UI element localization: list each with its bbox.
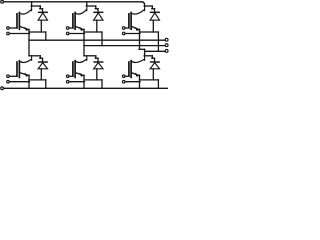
wire phase node 1 vertical — [28, 29, 30, 56]
wire bus drop column 3 (rounded corner) — [142, 2, 145, 6]
wire bottom emitter 3 to N bus — [139, 75, 141, 88]
wire collector B2 staircase — [84, 55, 96, 57]
node N (DC- terminal) — [1, 87, 4, 90]
diode D3 — [154, 9, 156, 14]
wire emitter B1 step down — [45, 80, 47, 88]
transistor T3 (IGBT) — [128, 14, 130, 28]
wire aux emitter E3b — [125, 81, 140, 83]
wire emitter T1 step down — [45, 32, 47, 40]
wire bus drop column 2 — [86, 2, 88, 6]
wire gate G2b — [69, 75, 73, 77]
wire emitter B2 to diode anode — [84, 79, 102, 81]
node phase terminal 2 — [165, 44, 168, 47]
wire emitter T1 to diode anode — [29, 31, 46, 33]
gate terminal G2b — [66, 75, 69, 78]
wire phase output 3 — [145, 50, 166, 52]
gate terminal G3b — [122, 75, 125, 78]
wire aux emitter E1 — [9, 33, 29, 35]
diode D2b — [97, 58, 99, 63]
wire collector B3 staircase — [144, 55, 152, 57]
wire gate G3 — [125, 27, 129, 29]
transistor T2 (IGBT) — [72, 14, 74, 28]
gate terminal G3 — [122, 27, 125, 30]
wire phase node 2 vertical — [83, 29, 85, 56]
wire gate G1b — [9, 75, 17, 77]
aux emitter terminal E1b — [7, 80, 10, 83]
wire emitter T3 to diode anode — [140, 31, 159, 33]
wire bottom emitter 2 to N bus — [83, 75, 85, 88]
wire top bus P — [3, 1, 141, 3]
wire phase output 2 — [84, 45, 165, 47]
gate terminal G1 — [7, 27, 10, 30]
aux emitter terminal E2b — [66, 80, 69, 83]
aux emitter terminal E2 — [66, 32, 69, 35]
gate terminal G1b — [7, 75, 10, 78]
wire collector T3 staircase — [144, 5, 152, 7]
node phase terminal 3 — [165, 49, 168, 52]
wire bottom emitter 1 to N bus — [28, 75, 30, 88]
aux emitter terminal E3b — [122, 80, 125, 83]
diode D1b — [42, 58, 44, 63]
aux emitter terminal E3 — [122, 32, 125, 35]
wire gate G2 — [69, 27, 73, 29]
wire gate G3b — [125, 75, 129, 77]
diode D2 — [97, 9, 99, 14]
wire emitter B1 to diode anode — [29, 79, 46, 81]
node P (DC+ terminal) — [1, 0, 4, 3]
wire gate G1 — [9, 27, 17, 29]
wire aux emitter E2 — [69, 33, 85, 35]
wire emitter B2 step down — [101, 80, 103, 88]
wire emitter T2 step down — [101, 32, 103, 46]
transistor B2 (IGBT) — [72, 62, 74, 76]
wire emitter T3 step down — [157, 32, 159, 51]
gate terminal G2 — [66, 27, 69, 30]
wire collector B1 staircase — [29, 55, 40, 57]
wire emitter B3 step down — [157, 80, 159, 88]
wire aux emitter E1b — [9, 81, 29, 83]
transistor B3 (IGBT) — [128, 62, 130, 76]
wire bottom bus N — [3, 87, 167, 89]
wire emitter T2 to diode anode — [84, 31, 102, 33]
wire emitter B3 to diode anode — [140, 79, 159, 81]
diode D1 — [42, 9, 44, 14]
wire phase output 1 — [29, 39, 165, 41]
wire collector T2 staircase — [86, 5, 96, 7]
transistor T1 (IGBT) — [16, 14, 18, 28]
node phase terminal 1 — [165, 38, 168, 41]
wire bus drop column 1 — [31, 2, 33, 6]
diode D3b — [154, 58, 156, 63]
aux emitter terminal E1 — [7, 32, 10, 35]
wire collector T1 staircase — [31, 5, 40, 7]
wire aux emitter E2b — [69, 81, 85, 83]
transistor B1 (IGBT) — [16, 62, 18, 76]
wire aux emitter E3 — [125, 33, 140, 35]
wire phase node 3 vertical with jog — [139, 29, 141, 49]
